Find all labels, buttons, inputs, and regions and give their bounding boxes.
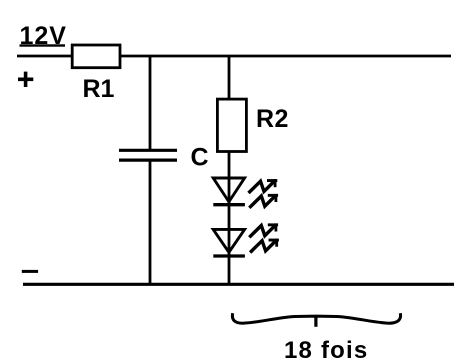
resistor R2 xyxy=(217,99,246,151)
wire capacitor branch top xyxy=(149,56,152,150)
wire bottom xyxy=(23,283,454,286)
svg-text:18 fois: 18 fois xyxy=(284,337,368,363)
LED D1 xyxy=(213,178,245,205)
resistor R1 xyxy=(72,45,120,68)
plus terminal xyxy=(18,72,33,87)
svg-text:R2: R2 xyxy=(256,105,289,133)
wire LED branch xyxy=(228,56,231,284)
LED D2 light arrows xyxy=(249,223,279,252)
wire capacitor branch bottom xyxy=(149,160,152,284)
svg-text:R1: R1 xyxy=(83,75,115,103)
LED D2 xyxy=(213,229,245,256)
brace 18 fois xyxy=(232,313,400,327)
svg-text:C: C xyxy=(191,144,209,172)
LED D1 light arrows xyxy=(249,179,279,208)
wire top xyxy=(17,55,451,58)
minus terminal xyxy=(22,270,38,273)
capacitor C xyxy=(119,150,177,160)
underline of 12V xyxy=(20,44,66,46)
